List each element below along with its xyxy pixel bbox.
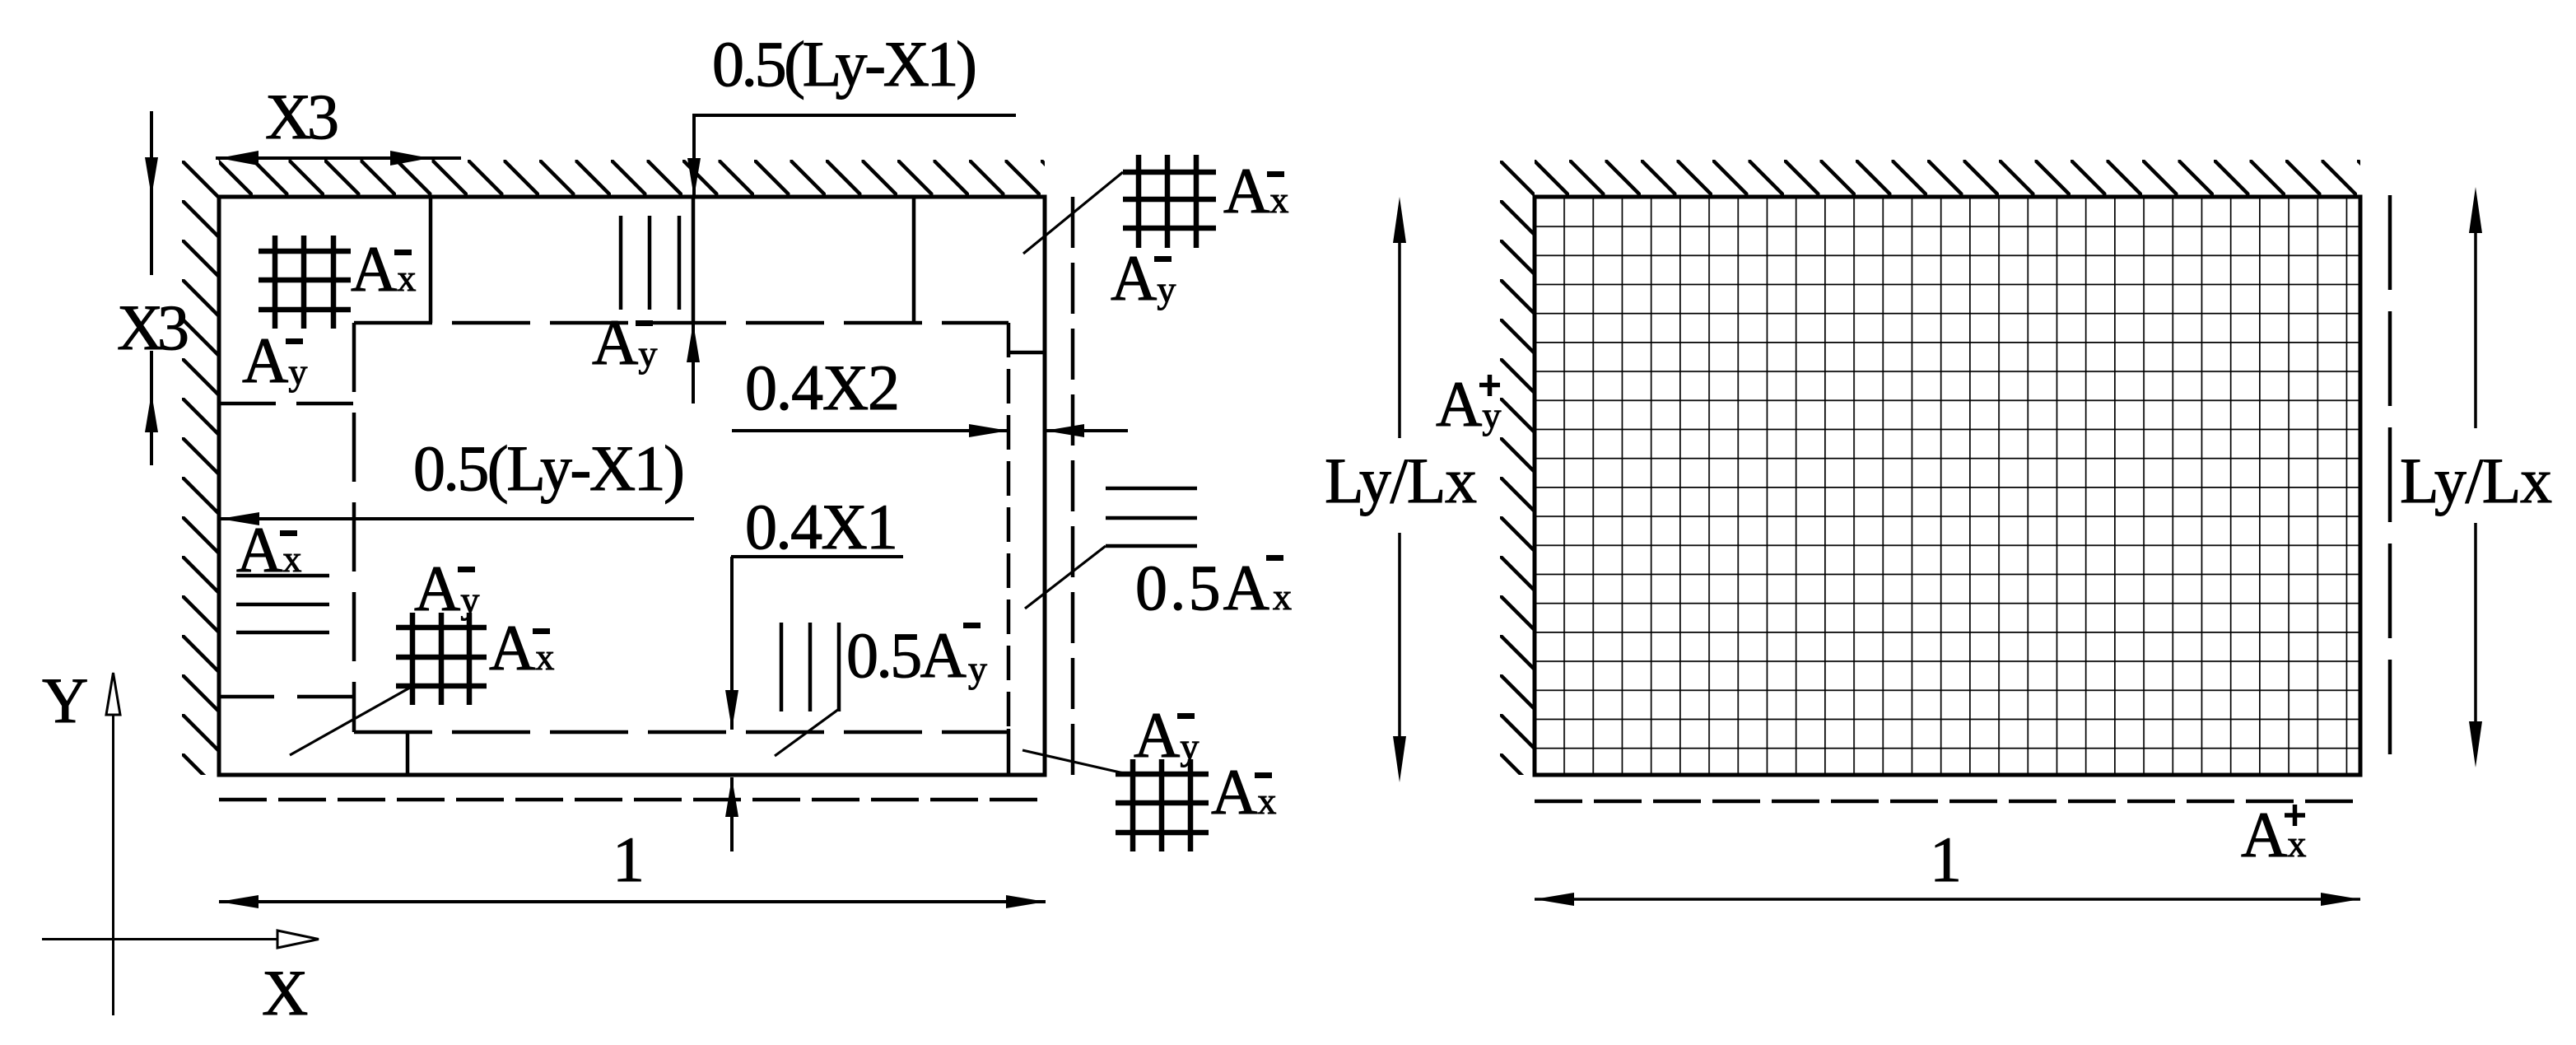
svg-text:X3: X3 <box>117 292 189 363</box>
svg-text:Ax: Ax <box>236 514 301 585</box>
svg-text:Ly/Lx: Ly/Lx <box>1325 445 1477 516</box>
svg-text:0.4X1: 0.4X1 <box>745 491 898 562</box>
svg-text:Ly/Lx: Ly/Lx <box>2400 445 2552 516</box>
svg-text:Ax: Ax <box>1223 155 1288 226</box>
svg-text:X: X <box>262 957 308 1029</box>
svg-text:0.5A: 0.5A <box>1135 552 1269 623</box>
svg-text:0.5(Ly-X1): 0.5(Ly-X1) <box>413 432 685 504</box>
svg-text:y: y <box>968 648 987 690</box>
svg-text:0.4X2: 0.4X2 <box>745 352 900 423</box>
svg-text:0.5(Ly-X1): 0.5(Ly-X1) <box>712 28 977 100</box>
svg-text:Ax: Ax <box>489 612 554 683</box>
svg-text:Ay: Ay <box>592 306 657 378</box>
svg-text:Y: Y <box>42 665 88 736</box>
svg-text:Ay: Ay <box>242 324 307 396</box>
svg-text:x: x <box>1273 576 1292 618</box>
svg-text:Ay: Ay <box>1111 242 1176 314</box>
svg-text:0.5A: 0.5A <box>846 619 967 691</box>
svg-text:Ax: Ax <box>351 233 416 305</box>
svg-text:Ay: Ay <box>1134 699 1199 771</box>
svg-text:X3: X3 <box>265 81 339 152</box>
svg-text:1: 1 <box>613 823 645 895</box>
svg-text:Ax: Ax <box>1211 756 1276 828</box>
svg-text:Ay: Ay <box>414 553 479 624</box>
svg-text:1: 1 <box>1930 823 1962 895</box>
